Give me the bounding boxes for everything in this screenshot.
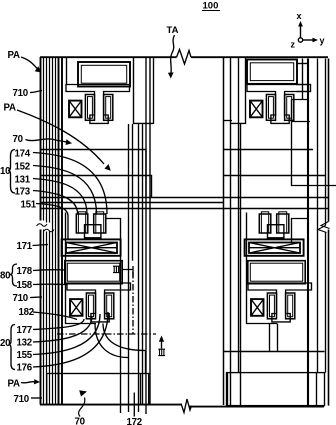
svg-text:70: 70 [13, 134, 23, 145]
svg-text:172: 172 [127, 417, 142, 425]
svg-text:710: 710 [13, 88, 28, 99]
svg-text:z: z [291, 40, 296, 50]
svg-text:PA: PA [8, 50, 20, 61]
svg-text:182: 182 [19, 307, 34, 318]
svg-text:80: 80 [0, 271, 10, 282]
svg-text:132: 132 [17, 338, 32, 349]
svg-text:710: 710 [13, 293, 28, 304]
svg-text:10: 10 [0, 166, 10, 177]
svg-text:TA: TA [167, 25, 179, 36]
svg-text:177: 177 [17, 325, 32, 336]
svg-text:y: y [320, 36, 325, 46]
svg-text:710: 710 [14, 394, 29, 405]
svg-text:151: 151 [21, 200, 37, 211]
svg-text:PA: PA [8, 379, 20, 390]
svg-text:174: 174 [15, 149, 31, 160]
svg-text:PA: PA [4, 103, 16, 114]
svg-text:158: 158 [17, 280, 33, 291]
svg-text:173: 173 [15, 187, 31, 198]
svg-text:178: 178 [17, 266, 33, 277]
svg-text:x: x [297, 11, 302, 21]
svg-text:70: 70 [75, 417, 85, 425]
svg-text:171: 171 [17, 241, 33, 252]
svg-text:20: 20 [0, 338, 10, 349]
svg-text:131: 131 [15, 175, 31, 186]
svg-text:152: 152 [15, 162, 30, 173]
svg-text:176: 176 [17, 363, 33, 374]
svg-text:155: 155 [17, 350, 33, 361]
svg-text:100: 100 [203, 1, 219, 12]
